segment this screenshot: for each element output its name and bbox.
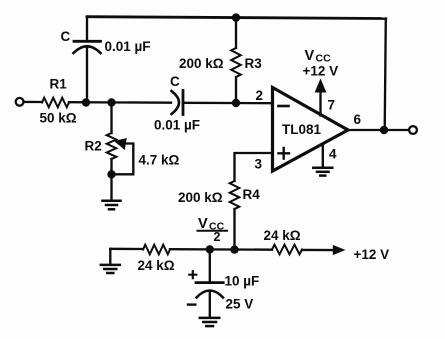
capacitor C1	[74, 41, 101, 102]
resistor 24k left	[143, 245, 170, 255]
ground (R2)	[103, 201, 121, 210]
wire feedback right rail	[385, 19, 386, 131]
svg-text:V: V	[305, 48, 315, 64]
ground (C3)	[200, 318, 220, 326]
svg-text:R2: R2	[85, 139, 102, 154]
resistor R1	[42, 98, 69, 108]
svg-text:V: V	[198, 216, 208, 232]
wire R2 to ground	[110, 174, 112, 200]
svg-text:2: 2	[256, 88, 264, 103]
resistor R3	[231, 18, 241, 103]
ground (op-amp pin 4)	[313, 168, 332, 176]
svg-text:C: C	[170, 74, 180, 89]
svg-text:4.7 kΩ: 4.7 kΩ	[139, 153, 180, 168]
wire left ground drop	[109, 249, 111, 264]
wire input to R1	[24, 101, 42, 103]
svg-text:24 kΩ: 24 kΩ	[138, 258, 175, 273]
fraction bar	[198, 230, 228, 232]
pin 4 stem	[322, 146, 324, 168]
svg-text:200 kΩ: 200 kΩ	[178, 190, 223, 205]
resistor 24k right	[272, 245, 302, 255]
+12V arrow right	[333, 245, 346, 255]
capacitor C2	[172, 91, 273, 115]
node R2 bottom junction	[107, 170, 115, 178]
pin 7 stem and VCC arrow	[315, 79, 327, 116]
label VCC (top)	[305, 48, 332, 65]
svg-text:+12 V: +12 V	[354, 247, 390, 262]
svg-text:10 µF: 10 µF	[225, 274, 260, 289]
svg-text:50 kΩ: 50 kΩ	[40, 111, 77, 126]
label C3 minus	[188, 303, 195, 305]
svg-text:3: 3	[255, 157, 263, 172]
svg-text:2: 2	[214, 230, 221, 244]
plus input sign	[279, 148, 290, 159]
svg-text:0.01 µF: 0.01 µF	[105, 39, 151, 54]
minus input sign	[279, 105, 289, 108]
input terminal	[16, 98, 24, 106]
node A junction	[82, 98, 90, 106]
R2 wiper arrow	[112, 138, 134, 174]
svg-text:25 V: 25 V	[226, 297, 254, 312]
label C3 plus	[189, 271, 196, 278]
svg-text:0.01 µF: 0.01 µF	[154, 118, 200, 133]
ground (bottom left)	[101, 265, 120, 273]
output terminal	[409, 126, 417, 134]
node R4 bottom junction	[230, 245, 238, 253]
wire top rail	[87, 17, 386, 19]
wire pin6 output	[348, 129, 409, 131]
svg-text:R3: R3	[245, 56, 263, 71]
svg-text:R1: R1	[50, 77, 68, 92]
node output junction	[380, 126, 388, 134]
resistor R4	[230, 181, 240, 250]
wire pin3 to R4	[235, 153, 273, 181]
svg-text:C: C	[61, 29, 71, 44]
capacitor C3 10uF	[196, 250, 223, 318]
svg-text:7: 7	[328, 98, 336, 113]
node C junction (pin2 net)	[232, 99, 240, 107]
resistor R2 (pot)	[107, 103, 117, 174]
svg-text:24 kΩ: 24 kΩ	[264, 228, 301, 243]
wire bottom rail	[110, 249, 333, 250]
node B junction (R2 tap)	[107, 98, 115, 106]
svg-text:4: 4	[329, 147, 337, 162]
svg-text:200 kΩ: 200 kΩ	[179, 56, 224, 71]
node Vcc/2 junction	[206, 245, 214, 253]
node top junction (R3 top)	[232, 13, 240, 21]
svg-text:+12 V: +12 V	[303, 64, 339, 79]
wire top-left drop to C	[86, 17, 88, 40]
op-amp U1 TL081	[273, 88, 349, 172]
svg-text:6: 6	[354, 112, 362, 127]
svg-text:R4: R4	[243, 187, 261, 202]
wire R1 to node A	[69, 101, 171, 104]
svg-text:TL081: TL081	[282, 122, 322, 137]
label VCC/2 fraction	[198, 216, 225, 244]
